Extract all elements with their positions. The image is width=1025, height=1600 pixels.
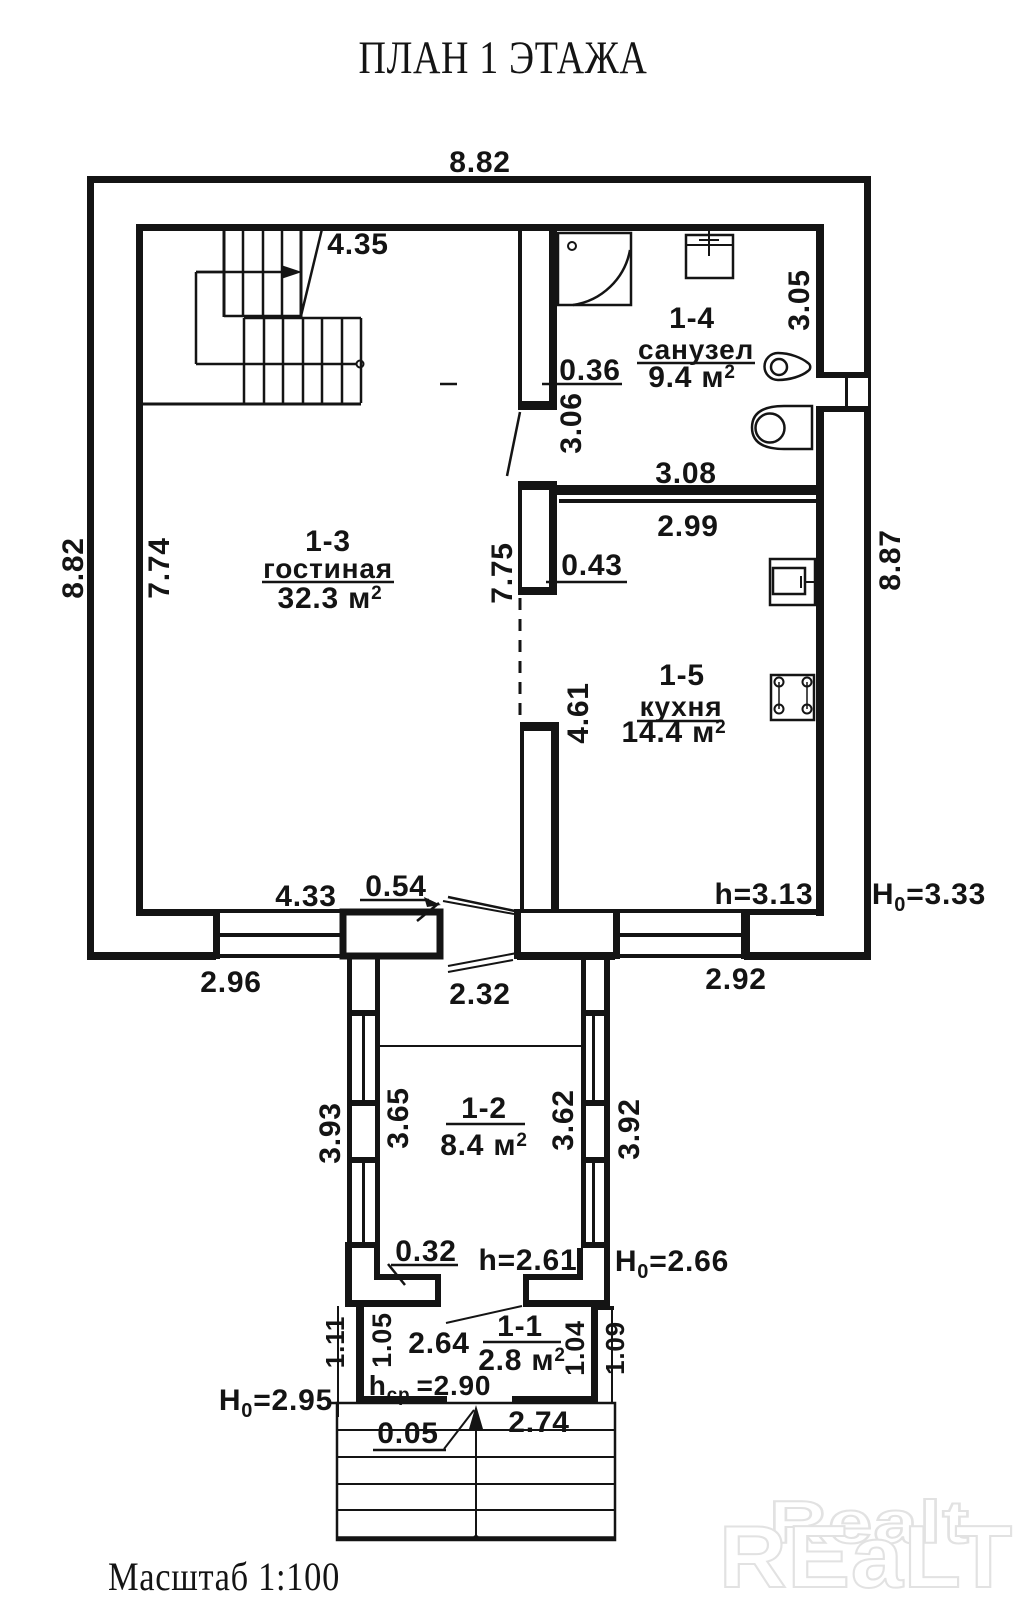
dimension h=2.61 — [478, 1244, 577, 1277]
room label 1-1 — [483, 1310, 561, 1343]
window kitchen left jamb — [613, 909, 620, 959]
room label 32.3 m2 — [277, 582, 382, 615]
leader line 1-1 opening — [446, 1306, 522, 1323]
svg-text:32.3 м2: 32.3 м2 — [277, 582, 382, 615]
svg-text:3.93: 3.93 — [314, 1102, 347, 1164]
svg-text:0.54: 0.54 — [365, 870, 427, 903]
inner wall bottom of living room — [136, 909, 216, 916]
svg-text:2.64: 2.64 — [408, 1327, 470, 1360]
dashed open boundary living room / kitchen — [519, 598, 522, 722]
door jamb right of porch door — [514, 909, 521, 959]
dimension 0.36 — [440, 354, 622, 387]
living room door leaf to porch — [448, 897, 515, 911]
svg-text:3.06: 3.06 — [555, 392, 588, 454]
svg-text:2.8 м2: 2.8 м2 — [478, 1344, 566, 1377]
room label гостиная — [262, 553, 394, 584]
porch left wall glazing lines — [362, 1016, 365, 1242]
partition middle stub — [518, 481, 557, 595]
outer wall bottom right segment — [744, 952, 871, 960]
dimension 2.74 — [508, 1406, 570, 1439]
porch right wall glazing lines — [592, 1016, 595, 1242]
dimension 4.33 — [275, 880, 337, 913]
room label 14.4 m2 — [621, 716, 726, 749]
svg-text:H0=2.66: H0=2.66 — [615, 1245, 729, 1283]
niche in right wall — [816, 372, 871, 412]
leader lines door 2.32 — [443, 901, 517, 966]
dimension 2.64 — [408, 1327, 470, 1360]
svg-text:0.32: 0.32 — [395, 1235, 457, 1268]
room label 1-4 — [669, 302, 715, 335]
svg-text:гостиная: гостиная — [263, 553, 393, 584]
dimension 3.62 rotated — [547, 1089, 580, 1151]
dimension 8.82 top — [449, 146, 511, 179]
room label 2.8 m2 — [478, 1344, 566, 1377]
dimension arrow 0.54 — [360, 897, 441, 907]
dimension 3.08 — [655, 457, 717, 490]
porch right wall faces — [581, 959, 610, 1306]
dimension 3.93 rotated — [314, 1102, 347, 1164]
shower cabin — [558, 233, 631, 305]
svg-text:2.74: 2.74 — [508, 1406, 570, 1439]
dimension H0=2.95 — [219, 1384, 333, 1422]
porch right corner wall L — [523, 1242, 610, 1307]
svg-text:2.96: 2.96 — [200, 966, 262, 999]
svg-text:2.32: 2.32 — [449, 978, 511, 1011]
outer wall top — [87, 176, 871, 183]
room label 1-3 — [305, 525, 351, 558]
dimension 3.05 rotated — [783, 269, 816, 331]
svg-text:1.04: 1.04 — [560, 1320, 590, 1376]
svg-text:3.92: 3.92 — [613, 1098, 646, 1160]
svg-text:4.61: 4.61 — [562, 682, 595, 744]
svg-text:7.75: 7.75 — [486, 542, 519, 604]
room 1-1 left wall — [356, 1306, 364, 1403]
kitchen sink — [770, 559, 816, 605]
wall pier 0.54 between window and door — [343, 912, 440, 956]
svg-text:3.62: 3.62 — [547, 1089, 580, 1151]
dimension 2.96 — [200, 966, 262, 999]
watermark REaLT large — [719, 1507, 1013, 1600]
dimension 0.32 — [391, 1235, 458, 1268]
window kitchen right jamb thick — [741, 909, 750, 959]
kitchen stove — [771, 675, 814, 720]
porch left wall faces — [347, 959, 380, 1306]
dimension 1.11 rotated — [320, 1316, 350, 1368]
window kitchen lines — [620, 909, 741, 958]
window living room left jamb — [213, 909, 220, 959]
tick slash on pier — [417, 903, 439, 921]
staircase travel line with circle — [196, 361, 364, 368]
dimension 7.74 rotated — [143, 537, 176, 599]
dimension 1.05 rotated — [367, 1312, 397, 1368]
svg-text:2.99: 2.99 — [657, 510, 719, 543]
svg-text:3.08: 3.08 — [655, 457, 717, 490]
dimension H0=2.66 — [615, 1245, 729, 1283]
svg-text:9.4 м2: 9.4 м2 — [648, 361, 736, 394]
bathroom door leaf — [507, 412, 520, 476]
bidet on right wall — [765, 353, 811, 380]
dimension 2.32 — [449, 978, 511, 1011]
svg-text:8.82: 8.82 — [449, 146, 511, 179]
dimension 3.06 rotated — [555, 392, 588, 454]
inner wall top (living room and bathroom) — [136, 224, 824, 231]
steps center line with arrow — [469, 1405, 483, 1541]
svg-text:1.05: 1.05 — [367, 1312, 397, 1368]
porch left wall caps — [348, 1010, 380, 1248]
dimension h=3.13 — [714, 878, 813, 911]
staircase upper flight — [224, 231, 301, 317]
porch interior boundary line — [380, 1045, 581, 1047]
leader line 0.32 arrow — [388, 1264, 405, 1285]
dimension 0.43 — [546, 549, 627, 582]
dimension 0.05 — [373, 1417, 446, 1450]
svg-text:ПЛАН 1 ЭТАЖА: ПЛАН 1 ЭТАЖА — [359, 32, 648, 84]
room 1-1 right wall — [591, 1306, 598, 1403]
dimension 3.65 rotated — [382, 1087, 415, 1149]
washbasin bathroom — [686, 229, 733, 278]
room label кухня — [637, 691, 723, 722]
svg-text:1-5: 1-5 — [659, 659, 705, 692]
svg-text:1.09: 1.09 — [600, 1321, 630, 1375]
svg-text:h=2.61: h=2.61 — [478, 1244, 577, 1277]
outer wall bottom left segment — [87, 952, 216, 960]
svg-text:0.36: 0.36 — [559, 354, 621, 387]
steps outline — [337, 1403, 615, 1540]
dimension 4.61 rotated — [562, 682, 595, 744]
room label 1-5 — [659, 659, 705, 692]
room label 8.4 m2 — [440, 1129, 528, 1162]
bathroom wall right upper — [816, 224, 824, 378]
svg-text:2.92: 2.92 — [705, 963, 767, 996]
outer wall right — [864, 176, 871, 959]
svg-text:4.33: 4.33 — [275, 880, 337, 913]
dimension 2.99 — [657, 510, 719, 543]
svg-text:1-1: 1-1 — [497, 1310, 543, 1343]
dimension 0.54 — [365, 870, 427, 903]
kitchen inner bottom line left of window — [521, 909, 613, 913]
extension line right of room 1-1 — [598, 1306, 614, 1403]
scale label — [108, 1554, 340, 1599]
staircase lower flight — [244, 318, 361, 403]
room label 9.4 m2 — [648, 361, 736, 394]
leader line 2.32 — [448, 960, 513, 972]
title — [359, 32, 648, 84]
svg-text:h=3.13: h=3.13 — [714, 878, 813, 911]
staircase landing — [196, 272, 224, 364]
steps treads — [337, 1430, 615, 1538]
kitchen inner wall right — [816, 497, 824, 916]
svg-text:0.05: 0.05 — [377, 1417, 439, 1450]
svg-text:Масштаб 1:100: Масштаб 1:100 — [108, 1554, 340, 1599]
wall between bathroom and kitchen — [549, 485, 824, 503]
dimension 7.75 rotated — [486, 542, 519, 604]
svg-text:H0=3.33: H0=3.33 — [872, 878, 986, 916]
svg-text:8.4 м2: 8.4 м2 — [440, 1129, 528, 1162]
staircase bottom boundary line — [140, 403, 361, 406]
dimension 3.92 rotated — [613, 1098, 646, 1160]
dimension hcp=2.90 — [369, 1370, 492, 1406]
svg-text:7.74: 7.74 — [143, 537, 176, 599]
dimension 8.87 rotated — [874, 529, 907, 591]
room label санузел — [637, 334, 755, 365]
svg-text:14.4 м2: 14.4 м2 — [621, 716, 726, 749]
svg-text:4.35: 4.35 — [327, 228, 389, 261]
partition lower stub — [520, 722, 559, 912]
steps top line extension to H0 label — [331, 1402, 337, 1405]
kitchen inner bottom line right of window — [750, 909, 816, 915]
toilet — [752, 406, 812, 449]
svg-text:0.43: 0.43 — [561, 549, 623, 582]
porch left corner wall L — [345, 1242, 441, 1307]
leader line 0.05 — [444, 1410, 474, 1449]
dimension H0=3.33 — [872, 878, 986, 916]
dimension 1.04 rotated — [560, 1320, 590, 1376]
svg-text:1.11: 1.11 — [320, 1316, 350, 1368]
inner wall left — [136, 224, 143, 916]
staircase travel arrow — [196, 265, 302, 279]
svg-text:REaLT: REaLT — [719, 1507, 1013, 1600]
partition upper stub living room / bathroom — [518, 231, 557, 410]
svg-text:H0=2.95: H0=2.95 — [219, 1384, 333, 1422]
bathroom wall right lower — [816, 406, 824, 497]
dimension 8.82 left rotated — [57, 537, 90, 599]
room 1-1 bottom wall segments — [356, 1396, 598, 1403]
leader line 4.35 — [301, 229, 322, 316]
svg-text:8.82: 8.82 — [57, 537, 90, 599]
dimension 4.35 — [327, 228, 389, 261]
dimension 1.09 rotated — [600, 1321, 630, 1375]
svg-text:3.05: 3.05 — [783, 269, 816, 331]
porch right wall caps — [581, 1010, 609, 1248]
svg-text:8.87: 8.87 — [874, 529, 907, 591]
window living room lines — [220, 909, 341, 958]
extension line left of room 1-1 — [337, 1306, 339, 1417]
svg-text:3.65: 3.65 — [382, 1087, 415, 1149]
svg-text:1-2: 1-2 — [461, 1092, 507, 1125]
room label 1-2 — [446, 1092, 525, 1125]
watermark Realt small — [769, 1489, 970, 1556]
svg-text:1-4: 1-4 — [669, 302, 715, 335]
outer wall left — [87, 176, 94, 959]
outer wall bottom segment between door and kitchen window — [517, 952, 615, 960]
dimension 2.92 — [705, 963, 767, 996]
